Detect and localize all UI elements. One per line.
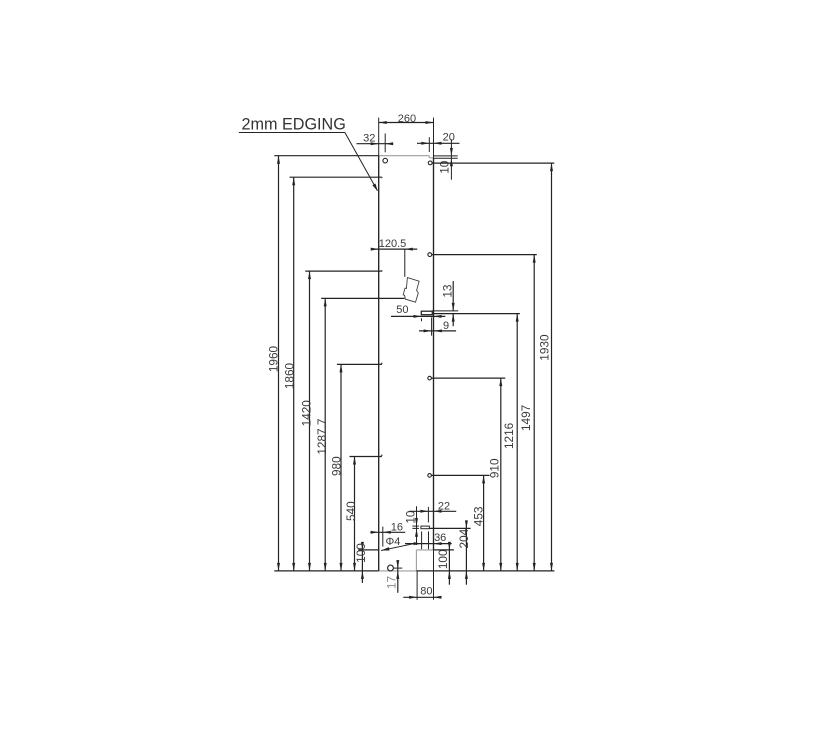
svg-text:36: 36 xyxy=(434,532,446,544)
svg-text:1930: 1930 xyxy=(538,334,552,361)
svg-text:980: 980 xyxy=(329,456,343,476)
svg-text:260: 260 xyxy=(398,113,416,125)
svg-text:20: 20 xyxy=(443,132,455,144)
svg-text:1287.7: 1287.7 xyxy=(315,419,329,455)
svg-text:204: 204 xyxy=(457,528,471,548)
svg-text:1216: 1216 xyxy=(502,422,516,449)
svg-text:10: 10 xyxy=(438,160,452,174)
svg-text:100: 100 xyxy=(354,543,368,563)
svg-text:100: 100 xyxy=(436,549,450,569)
svg-text:17: 17 xyxy=(384,576,398,589)
svg-text:10: 10 xyxy=(404,510,418,524)
svg-text:9: 9 xyxy=(443,320,449,332)
svg-text:1497: 1497 xyxy=(519,405,533,431)
svg-text:32: 32 xyxy=(363,133,375,145)
svg-text:50: 50 xyxy=(396,304,408,316)
svg-text:120.5: 120.5 xyxy=(379,238,407,250)
svg-text:2mm EDGING: 2mm EDGING xyxy=(242,115,346,133)
svg-text:16: 16 xyxy=(391,522,403,534)
svg-text:1420: 1420 xyxy=(299,400,313,427)
svg-text:80: 80 xyxy=(420,586,432,598)
svg-text:Φ4: Φ4 xyxy=(386,536,401,548)
svg-text:1860: 1860 xyxy=(283,362,297,389)
svg-text:1960: 1960 xyxy=(267,345,281,372)
svg-text:22: 22 xyxy=(438,501,450,513)
svg-text:540: 540 xyxy=(344,501,358,521)
svg-text:13: 13 xyxy=(441,284,455,298)
svg-text:453: 453 xyxy=(471,506,485,526)
